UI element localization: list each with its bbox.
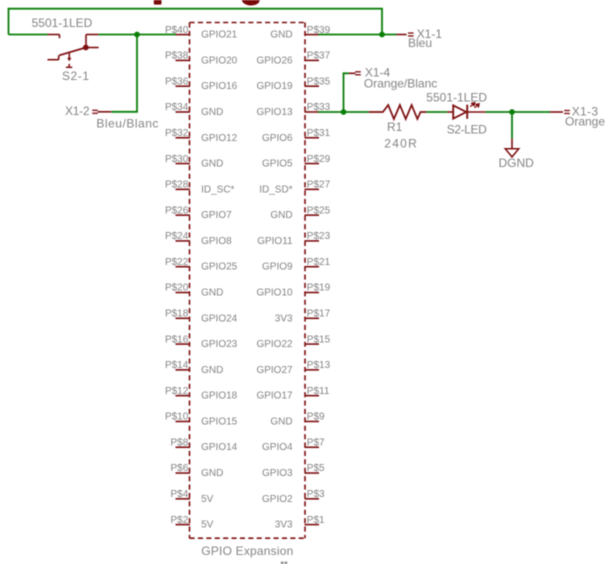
svg-text:GPIO13: GPIO13 — [256, 107, 293, 118]
pin P$25 (GND) — [270, 205, 330, 221]
svg-text:P$36: P$36 — [165, 76, 189, 87]
svg-text:GND: GND — [270, 210, 292, 221]
svg-text:Orange: Orange — [565, 115, 605, 129]
pin P$32 (GPIO12) — [165, 128, 238, 144]
pin P$17 (3V3) — [275, 308, 331, 324]
svg-text:P$26: P$26 — [165, 205, 189, 216]
connector pin X1-2 — [92, 110, 111, 114]
svg-text:GPIO18: GPIO18 — [201, 391, 238, 402]
svg-text:Orange/Blanc: Orange/Blanc — [364, 77, 437, 91]
svg-text:5V: 5V — [201, 494, 214, 505]
pin P$20 (GND) — [165, 283, 223, 299]
pin P$23 (GPIO11) — [257, 231, 330, 247]
svg-text:P$28: P$28 — [165, 180, 189, 191]
svg-text:X1-2: X1-2 — [65, 104, 90, 118]
svg-text:GPIO8: GPIO8 — [201, 236, 232, 247]
svg-text:GPIO16: GPIO16 — [201, 81, 238, 92]
pin P$34 (GND) — [165, 102, 223, 118]
svg-text:GPIO11: GPIO11 — [257, 236, 293, 247]
svg-text:GPIO10: GPIO10 — [256, 288, 293, 299]
svg-text:P$30: P$30 — [165, 154, 189, 165]
pin P$5 (GPIO3) — [262, 463, 325, 479]
svg-text:P$8: P$8 — [171, 437, 189, 448]
svg-text:GND: GND — [201, 365, 223, 376]
junction node X1-4 branch — [341, 109, 347, 115]
svg-text:GND: GND — [201, 107, 223, 118]
svg-text:P$18: P$18 — [165, 308, 189, 319]
svg-text:5V: 5V — [201, 520, 214, 531]
pin P$10 (GPIO15) — [165, 412, 238, 428]
svg-text:P$21: P$21 — [307, 257, 331, 268]
svg-text:GPIO14: GPIO14 — [201, 442, 238, 453]
svg-text:GPIO25: GPIO25 — [201, 262, 238, 273]
pin P$28 (ID_SC*) — [165, 180, 235, 196]
svg-text:GPIO6: GPIO6 — [262, 133, 293, 144]
svg-text:GPIO27: GPIO27 — [256, 365, 293, 376]
pin P$35 (GPIO19) — [256, 76, 330, 92]
svg-text:ID_SD*: ID_SD* — [259, 184, 292, 195]
junction node DGND branch — [509, 109, 515, 115]
svg-text:GPIO23: GPIO23 — [201, 339, 238, 350]
switch S2-1 — [48, 35, 99, 60]
svg-text:P$32: P$32 — [165, 128, 189, 139]
svg-text:S2-LED: S2-LED — [447, 123, 487, 137]
resistor R1 — [369, 105, 426, 119]
svg-text:P$23: P$23 — [307, 231, 331, 242]
svg-text:Bleu: Bleu — [408, 36, 432, 50]
LED S2-LED — [447, 105, 485, 119]
wire up to X1-4 — [344, 73, 349, 112]
svg-text:GPIO17: GPIO17 — [256, 391, 293, 402]
pin P$15 (GPIO22) — [256, 334, 330, 350]
svg-text:P$17: P$17 — [307, 308, 331, 319]
svg-text:P$10: P$10 — [165, 412, 189, 423]
pin P$29 (GPIO5) — [262, 154, 331, 170]
svg-text:GPIO7: GPIO7 — [201, 210, 232, 221]
svg-text:P$37: P$37 — [307, 51, 331, 62]
pin P$2 (5V) — [171, 515, 214, 531]
pin P$24 (GPIO8) — [165, 231, 232, 247]
svg-text:GPIO2: GPIO2 — [262, 494, 293, 505]
pin P$36 (GPIO16) — [165, 76, 238, 92]
ground DGND — [505, 139, 519, 157]
svg-text:GND: GND — [201, 468, 223, 479]
svg-text:P$22: P$22 — [165, 257, 189, 268]
svg-text:P$11: P$11 — [307, 386, 330, 397]
pin P$11 (GPIO17) — [256, 386, 329, 402]
wire P$39 to X1-1 — [318, 34, 396, 36]
svg-text:P$1: P$1 — [307, 515, 325, 526]
title text (cropped descenders) — [154, 0, 260, 6]
pin P$26 (GPIO7) — [165, 205, 232, 221]
pin P$21 (GPIO9) — [262, 257, 331, 273]
svg-text:GPIO12: GPIO12 — [201, 133, 238, 144]
svg-text:3V3: 3V3 — [275, 313, 293, 324]
svg-text:P$20: P$20 — [165, 283, 189, 294]
LED emission arrows — [470, 103, 479, 108]
pin P$37 (GPIO26) — [256, 51, 330, 67]
svg-text:P$38: P$38 — [165, 51, 189, 62]
svg-text:P$7: P$7 — [307, 437, 325, 448]
svg-text:GPIO4: GPIO4 — [262, 442, 293, 453]
svg-text:P$12: P$12 — [165, 386, 189, 397]
svg-text:5501-1LED: 5501-1LED — [32, 16, 93, 30]
pin P$4 (5V) — [171, 489, 214, 505]
svg-text:5501-1LED: 5501-1LED — [426, 91, 487, 105]
svg-text:R1: R1 — [387, 120, 403, 134]
svg-text:240R: 240R — [384, 137, 417, 151]
svg-text:P$14: P$14 — [165, 360, 189, 371]
svg-text:GPIO22: GPIO22 — [256, 339, 293, 350]
pin P$7 (GPIO4) — [262, 437, 325, 453]
pin P$6 (GND) — [171, 463, 224, 479]
wire switch to net — [9, 34, 48, 36]
svg-text:P$27: P$27 — [307, 180, 331, 191]
junction node at P$40 wire — [134, 32, 140, 38]
svg-text:P$3: P$3 — [307, 489, 325, 500]
svg-text:GPIO3: GPIO3 — [262, 468, 293, 479]
connector pin X1-1 — [397, 32, 414, 36]
svg-text:P$34: P$34 — [165, 102, 189, 113]
junction node X1-1 branch — [379, 32, 385, 38]
wire down to DGND — [511, 112, 513, 139]
wire junction down to X1-2 — [111, 35, 137, 112]
svg-text:P$2: P$2 — [171, 515, 189, 526]
svg-text:GND: GND — [201, 288, 223, 299]
svg-text:P$4: P$4 — [171, 489, 189, 500]
pin P$8 (GPIO14) — [171, 437, 238, 453]
svg-text:3V3: 3V3 — [275, 520, 293, 531]
svg-text:P$6: P$6 — [171, 463, 189, 474]
wire P$33 to R1 — [318, 111, 369, 113]
switch actuator arrow — [66, 53, 72, 67]
svg-text:P$35: P$35 — [307, 76, 331, 87]
pin P$22 (GPIO25) — [165, 257, 238, 273]
svg-text:GPIO15: GPIO15 — [201, 416, 238, 427]
svg-text:P$25: P$25 — [307, 205, 331, 216]
svg-text:P$16: P$16 — [165, 334, 189, 345]
svg-text:S2-1: S2-1 — [62, 69, 89, 83]
connector GPIO Expansion body — [190, 23, 306, 539]
svg-text:GND: GND — [201, 159, 223, 170]
svg-text:P$9: P$9 — [307, 412, 325, 423]
connector pin X1-3 — [550, 110, 570, 114]
svg-text:GPIO Expansion: GPIO Expansion — [201, 544, 293, 558]
svg-text:GPIO26: GPIO26 — [256, 55, 293, 66]
svg-text:P$13: P$13 — [307, 360, 331, 371]
svg-text:P$24: P$24 — [165, 231, 189, 242]
svg-text:GPIO20: GPIO20 — [201, 55, 238, 66]
svg-text:GND: GND — [270, 416, 292, 427]
wire LED to X1-3 — [485, 111, 550, 113]
pin P$38 (GPIO20) — [165, 51, 238, 67]
pin P$3 (GPIO2) — [262, 489, 325, 505]
pin P$9 (GND) — [270, 412, 325, 428]
svg-text:P$19: P$19 — [307, 283, 331, 294]
wire switch pivot to P$40 — [98, 34, 176, 36]
svg-text:P$15: P$15 — [307, 334, 331, 345]
svg-text:GPIO21: GPIO21 — [201, 30, 238, 41]
svg-text:GPIO5: GPIO5 — [262, 159, 293, 170]
pin P$18 (GPIO24) — [165, 308, 238, 324]
svg-text:GPIO9: GPIO9 — [262, 262, 293, 273]
pin P$39 (GND) — [270, 25, 330, 41]
svg-text:GPIO19: GPIO19 — [256, 81, 293, 92]
value text (cropped) — [281, 562, 287, 564]
pin P$1 (3V3) — [275, 515, 325, 531]
wire net GND top loop — [9, 9, 383, 35]
svg-text:P$5: P$5 — [307, 463, 325, 474]
pin P$31 (GPIO6) — [262, 128, 331, 144]
svg-text:DGND: DGND — [499, 156, 535, 170]
wire R1 to LED — [426, 111, 447, 113]
pin P$13 (GPIO27) — [256, 360, 330, 376]
pin P$12 (GPIO18) — [165, 386, 238, 402]
svg-text:ID_SC*: ID_SC* — [201, 184, 234, 195]
svg-text:GPIO24: GPIO24 — [201, 313, 238, 324]
svg-text:Bleu/Blanc: Bleu/Blanc — [96, 116, 158, 130]
pin P$16 (GPIO23) — [165, 334, 238, 350]
connector pin X1-4 — [349, 71, 361, 75]
svg-text:GND: GND — [270, 30, 292, 41]
pin P$19 (GPIO10) — [256, 283, 330, 299]
svg-text:P$31: P$31 — [307, 128, 331, 139]
pin P$30 (GND) — [165, 154, 223, 170]
pin P$14 (GND) — [165, 360, 223, 376]
svg-text:P$29: P$29 — [307, 154, 331, 165]
pin P$33 (GPIO13) — [256, 102, 330, 118]
pin P$40 (GPIO21) — [165, 25, 238, 41]
pin P$27 (ID_SD*) — [259, 180, 330, 196]
